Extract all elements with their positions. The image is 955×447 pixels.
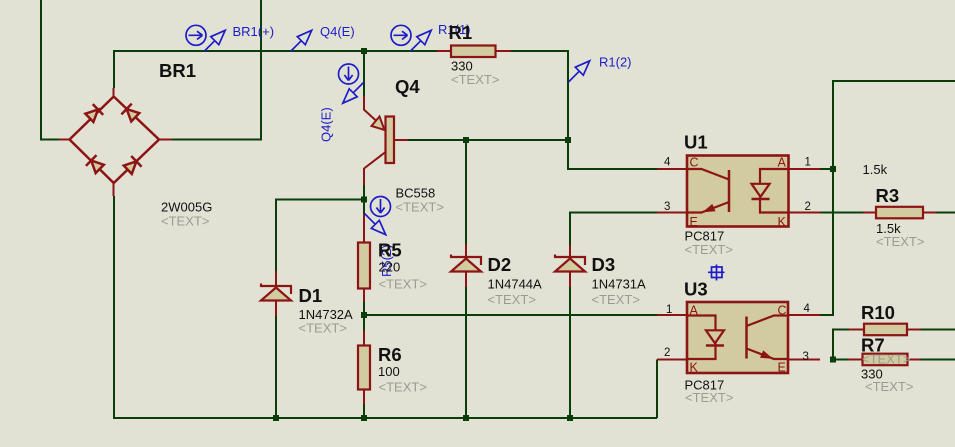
svg-text:1N4744A: 1N4744A bbox=[488, 277, 543, 292]
svg-text:<TEXT>: <TEXT> bbox=[379, 380, 427, 395]
wire D3 bottom column bbox=[569, 287, 571, 418]
U3 LED bbox=[688, 316, 716, 331]
svg-text:C: C bbox=[778, 304, 787, 318]
origin marker bbox=[708, 265, 725, 281]
svg-text:R1(2): R1(2) bbox=[599, 55, 632, 70]
svg-text:K: K bbox=[778, 215, 787, 229]
wire R7 left link bbox=[833, 359, 849, 361]
svg-text:BC558: BC558 bbox=[396, 186, 436, 201]
wire AC input right vertical bbox=[172, 0, 261, 140]
voltage probe Q4(E) on emitter pin bbox=[343, 82, 364, 103]
svg-text:<TEXT>: <TEXT> bbox=[451, 72, 499, 87]
junction node U1 pin1 / right column bbox=[830, 166, 836, 172]
svg-text:1: 1 bbox=[805, 157, 811, 169]
wire ground bus bottom bbox=[114, 196, 657, 418]
junction node D2 / ground bus bbox=[463, 415, 469, 421]
junction node R5 / R6 / U3 pin1 row bbox=[361, 312, 367, 318]
junction node U3 pin3 / R7 / R10 bbox=[830, 357, 836, 363]
svg-text:D3: D3 bbox=[592, 254, 616, 275]
resistor R1 330 bbox=[437, 46, 511, 58]
voltage probe R1(1) bbox=[410, 30, 431, 51]
wire U1 pin2 to R3 bbox=[820, 212, 864, 214]
voltage probe R1(2) bbox=[569, 61, 590, 82]
wire Q4 emitter column bbox=[363, 51, 365, 96]
current probe R5 (down) bbox=[371, 197, 391, 217]
wire D2 bottom column bbox=[465, 287, 467, 418]
junction node base / D2 bbox=[463, 137, 469, 143]
resistor R7 330 bbox=[849, 354, 921, 366]
svg-text:<TEXT>: <TEXT> bbox=[396, 200, 444, 215]
current probe Q4 emitter (down) bbox=[339, 64, 359, 84]
svg-text:BR1: BR1 bbox=[159, 60, 196, 81]
svg-text:E: E bbox=[690, 215, 698, 229]
svg-text:D1: D1 bbox=[299, 285, 323, 306]
U3 phototransistor bbox=[745, 317, 748, 359]
current probe R1 (right) bbox=[391, 25, 411, 45]
zener diode D3 1N4731A bbox=[555, 245, 585, 287]
svg-text:R1: R1 bbox=[449, 22, 473, 43]
bridge diode top-right bbox=[121, 104, 140, 123]
wire R5 bottom link bbox=[363, 302, 365, 331]
junction node collector / R5 bbox=[361, 197, 367, 203]
bridge rectifier BR1 bbox=[59, 88, 172, 196]
svg-text:E: E bbox=[778, 361, 786, 375]
svg-text:<TEXT>: <TEXT> bbox=[876, 234, 924, 249]
svg-text:A: A bbox=[690, 304, 699, 318]
svg-text:D2: D2 bbox=[488, 254, 512, 275]
resistor R3 1.5k bbox=[864, 207, 937, 219]
resistor R5 220 (vertical) bbox=[358, 200, 370, 302]
wire D1 bottom column bbox=[275, 316, 277, 418]
svg-text:K: K bbox=[690, 361, 699, 375]
wire U1 pin1 to right column bbox=[820, 168, 833, 170]
svg-text:2: 2 bbox=[664, 347, 670, 359]
bridge diode top-left bbox=[84, 104, 103, 123]
svg-text:Q4(E): Q4(E) bbox=[320, 24, 355, 39]
wire DC+ top rail right to U1 pin4 bbox=[511, 51, 658, 169]
U1 LED bbox=[760, 169, 788, 184]
voltage probe BR1(+) bbox=[204, 30, 225, 51]
svg-text:<TEXT>: <TEXT> bbox=[161, 214, 209, 229]
wire D3 top to U1 pin3 bbox=[570, 213, 658, 246]
svg-text:Q4(E): Q4(E) bbox=[319, 107, 334, 142]
svg-text:C: C bbox=[690, 156, 699, 170]
svg-text:R5: R5 bbox=[378, 240, 402, 261]
svg-text:<TEXT>: <TEXT> bbox=[862, 352, 910, 367]
svg-text:2W005G: 2W005G bbox=[161, 200, 212, 215]
svg-text:3: 3 bbox=[803, 351, 809, 363]
svg-text:4: 4 bbox=[664, 157, 671, 169]
junction node D1 / ground bus bbox=[273, 415, 279, 421]
bridge diode bottom-left bbox=[86, 155, 105, 174]
svg-text:U1: U1 bbox=[684, 132, 708, 153]
svg-text:R3: R3 bbox=[876, 185, 900, 206]
resistor R6 100 (vertical) bbox=[358, 331, 370, 404]
junction node base / feed column bbox=[565, 137, 571, 143]
wire node row to U3 pin1 bbox=[364, 314, 658, 316]
wire collector row to D1 bbox=[276, 200, 364, 271]
wire R3 right to edge bbox=[936, 212, 955, 214]
wire right column vertical bbox=[820, 81, 955, 315]
svg-text:1.5k: 1.5k bbox=[863, 162, 888, 177]
optocoupler U3 PC817 (mirrored) bbox=[657, 302, 820, 373]
junction node R6 / ground bus bbox=[361, 415, 367, 421]
svg-text:<TEXT>: <TEXT> bbox=[865, 379, 913, 394]
U1 phototransistor bbox=[728, 170, 731, 212]
wire R6 bottom link bbox=[363, 404, 365, 418]
wire Q4 collector link bbox=[363, 185, 365, 200]
svg-text:4: 4 bbox=[804, 303, 811, 315]
current probe BR1 (right) bbox=[186, 25, 206, 45]
svg-text:3: 3 bbox=[664, 201, 670, 213]
bridge diode bottom-right bbox=[123, 156, 142, 175]
voltage probe Q4(E) top bbox=[291, 30, 312, 51]
svg-text:BR1(+): BR1(+) bbox=[233, 24, 275, 39]
svg-text:<TEXT>: <TEXT> bbox=[592, 292, 640, 307]
svg-text:A: A bbox=[778, 156, 787, 170]
wire U3 pin2 riser bbox=[656, 360, 658, 419]
svg-text:2: 2 bbox=[805, 201, 811, 213]
wire R10 right to edge bbox=[921, 329, 955, 331]
wire D2 top column bbox=[465, 140, 467, 245]
voltage probe R5(2) bbox=[365, 214, 386, 235]
svg-text:<TEXT>: <TEXT> bbox=[685, 390, 733, 405]
svg-text:U3: U3 bbox=[684, 279, 708, 300]
wire Q4 base row bbox=[408, 139, 568, 141]
svg-text:1: 1 bbox=[666, 304, 672, 316]
zener diode D2 1N4744A bbox=[451, 245, 481, 288]
svg-text:<TEXT>: <TEXT> bbox=[488, 292, 536, 307]
wire R7 right to edge bbox=[921, 359, 955, 361]
svg-text:100: 100 bbox=[378, 364, 400, 379]
svg-text:220: 220 bbox=[379, 260, 401, 275]
wire AC input left vertical bbox=[41, 0, 59, 140]
svg-text:R6: R6 bbox=[378, 344, 402, 365]
transistor Q4 BC558 bbox=[364, 96, 408, 185]
svg-text:<TEXT>: <TEXT> bbox=[299, 321, 347, 336]
svg-text:<TEXT>: <TEXT> bbox=[379, 277, 427, 292]
zener diode D1 1N4732A bbox=[261, 271, 291, 317]
wire R10 link column bbox=[833, 330, 849, 360]
resistor R10 bbox=[849, 324, 921, 336]
optocoupler U1 PC817 bbox=[658, 156, 821, 227]
junction node D3 / ground bus bbox=[567, 415, 573, 421]
svg-text:R10: R10 bbox=[861, 302, 895, 323]
junction node Q4 emitter / top rail bbox=[361, 48, 367, 54]
svg-text:<TEXT>: <TEXT> bbox=[685, 242, 733, 257]
svg-text:1N4731A: 1N4731A bbox=[592, 277, 647, 292]
svg-text:Q4: Q4 bbox=[395, 76, 420, 97]
wire DC+ top rail left bbox=[114, 51, 437, 88]
